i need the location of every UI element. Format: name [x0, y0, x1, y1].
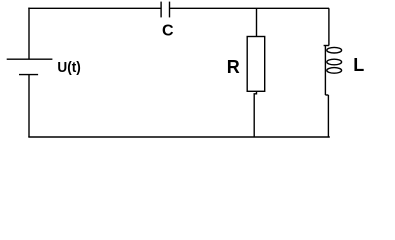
wire jog above inductor [324, 45, 329, 47]
wire jog below inductor [325, 94, 328, 96]
svg-text:L: L [353, 55, 364, 75]
wire resistor bottom stub [254, 91, 256, 137]
wire top-right segment [170, 7, 329, 9]
wire top-left segment [28, 7, 161, 9]
capacitor C left plate [160, 2, 162, 18]
wire inductor left side [324, 46, 326, 96]
capacitor C right plate [169, 2, 171, 18]
wire bottom [28, 136, 330, 138]
wire resistor top stub [256, 8, 258, 36]
voltage source U(t) long plate [7, 58, 53, 60]
wire right vertical upper [328, 8, 330, 45]
svg-text:C: C [162, 23, 174, 40]
inductor L loop 3 [327, 68, 342, 74]
svg-text:R: R [227, 57, 240, 77]
wire right vertical lower [327, 95, 329, 137]
resistor R body [247, 37, 265, 92]
wire left vertical lower [28, 75, 30, 137]
wire left vertical upper [28, 8, 30, 60]
inductor L loop 2 [327, 59, 342, 65]
svg-text:U(t): U(t) [57, 59, 80, 76]
voltage source U(t) short plate [19, 74, 38, 76]
inductor L loop 1 [327, 47, 342, 53]
